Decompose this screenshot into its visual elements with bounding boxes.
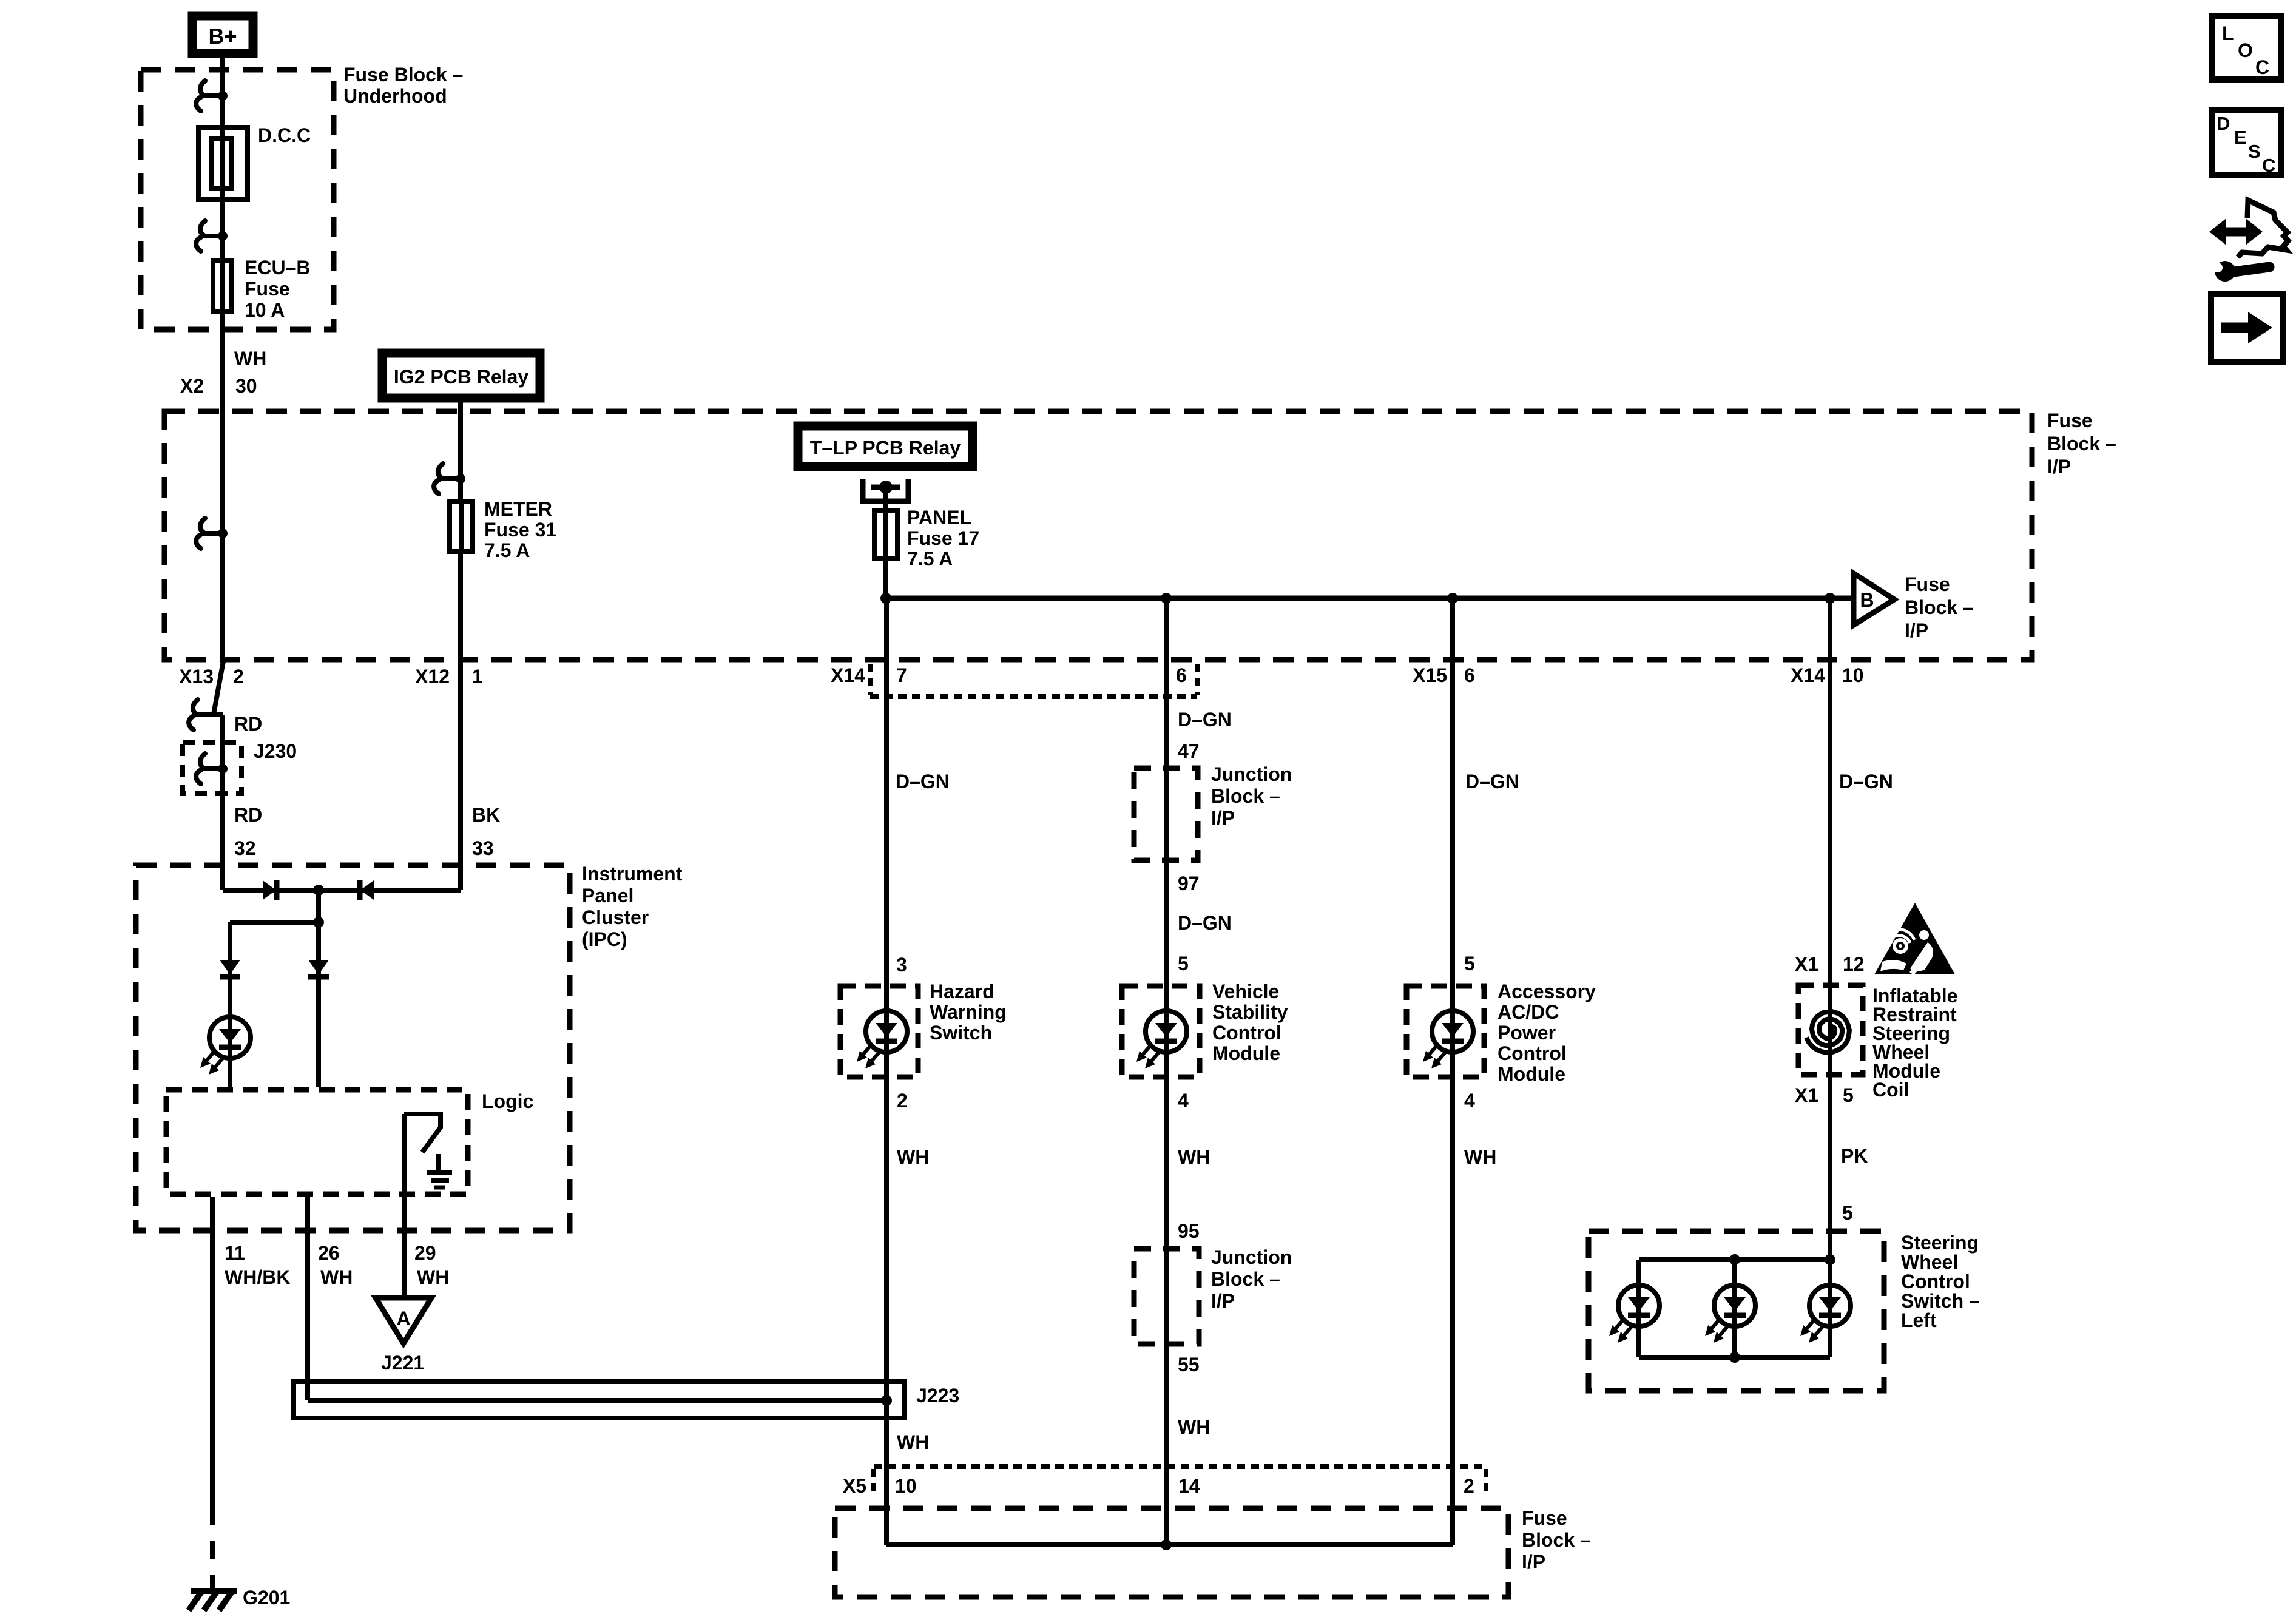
svg-text:X5: X5 [843,1475,866,1497]
svg-text:PK: PK [1841,1145,1868,1167]
Junction Block - I/P dashed box (lower) [1134,1249,1199,1344]
LED accessory AC/DC module [1423,1011,1473,1068]
svg-text:METER: METER [484,498,552,520]
wire bottom rail in switch [1639,1355,1830,1360]
next-page arrow icon box [2211,294,2283,362]
svg-text:X14: X14 [1791,664,1825,686]
svg-text:G201: G201 [243,1587,290,1609]
wire B+ down to X13 [220,58,225,663]
svg-text:X1: X1 [1795,953,1818,975]
svg-text:Wheel: Wheel [1901,1251,1958,1273]
svg-text:ECU–B: ECU–B [245,257,310,279]
svg-text:Fuse: Fuse [245,278,290,300]
svg-text:2: 2 [233,666,244,687]
svg-text:Coil: Coil [1872,1079,1909,1101]
Steering Wheel Control Switch - Left dashed box [1589,1231,1884,1391]
svg-text:47: 47 [1178,740,1200,762]
node [1729,1254,1740,1265]
svg-text:Module: Module [1497,1063,1565,1085]
bus wire from PANEL fuse across to fuse block I/P output B [886,596,1851,601]
Fuse Block - I/P dashed box (bottom) [835,1508,1508,1597]
LED switch illumination 1 [1609,1285,1660,1343]
svg-text:4: 4 [1178,1090,1189,1112]
LED VSC module [1136,1011,1187,1068]
svg-text:2: 2 [1464,1475,1474,1497]
svg-text:5: 5 [1842,1202,1853,1224]
svg-text:Fuse 31: Fuse 31 [484,519,556,541]
svg-text:I/P: I/P [2047,456,2071,478]
svg-text:Fuse Block –: Fuse Block – [343,64,463,86]
Fuse Block - I/P large dashed box [164,411,2032,660]
node [1825,593,1835,604]
coil spiral symbol [1806,1011,1849,1053]
svg-text:6: 6 [1176,664,1187,686]
svg-text:B: B [1860,589,1874,611]
wire IPC diode rail [223,888,461,893]
svg-text:J223: J223 [916,1385,959,1406]
logic ground symbol [436,1154,441,1170]
svg-text:Switch: Switch [930,1022,992,1044]
svg-text:X14: X14 [831,664,865,686]
svg-text:WH: WH [417,1266,449,1288]
LED switch illumination 3 [1800,1285,1851,1343]
svg-text:WH: WH [1178,1146,1210,1168]
wire steering coil branch [1828,598,1832,1260]
svg-text:Block –: Block – [1905,596,1974,618]
ground G201 [191,1588,237,1594]
service tool icon (arrow and wrench) [2220,228,2252,237]
fuse PANEL Fuse 17 (double rectangle) [874,511,897,559]
Junction Block - I/P dashed box (upper) [1134,768,1198,860]
wire to left LED branch [230,920,319,925]
Logic dashed box [166,1090,468,1194]
LED hazard warning switch [857,1011,907,1068]
wire left LED branch [228,922,232,1087]
wire X13 to IPC [220,715,225,890]
fuse METER Fuse 31 (double rectangle) [450,502,473,552]
ground reference triangle A (J221) [376,1298,431,1343]
svg-text:C: C [2255,56,2269,78]
svg-text:PANEL: PANEL [907,507,971,528]
svg-text:C: C [2262,155,2275,176]
svg-text:Fuse: Fuse [1905,573,1950,595]
connector hook inside J230 [196,754,228,784]
svg-text:T–LP PCB Relay: T–LP PCB Relay [810,437,961,459]
LED switch illumination 2 [1705,1285,1755,1343]
node [880,593,891,604]
wire IG2 relay to METER fuse [458,402,463,890]
connector hook on B+ feed [196,81,228,111]
Fuse Block - Underhood dashed box [141,70,334,329]
svg-text:O: O [2238,39,2253,61]
svg-text:Warning: Warning [930,1001,1007,1023]
svg-text:Instrument: Instrument [582,863,683,885]
svg-text:Control: Control [1497,1042,1567,1064]
svg-text:Panel: Panel [582,885,633,906]
svg-text:Fuse: Fuse [2047,410,2093,431]
svg-text:Logic: Logic [482,1090,533,1112]
svg-text:WH: WH [1464,1146,1496,1168]
wire junction drop [316,890,321,922]
LOC icon box [2212,16,2281,79]
svg-text:Power: Power [1497,1022,1556,1044]
svg-text:30: 30 [235,375,257,397]
splice J230 dashed box [183,743,241,794]
wire LED branch 1 [1636,1260,1641,1357]
svg-text:32: 32 [234,837,256,859]
svg-text:X12: X12 [415,666,450,687]
svg-text:D–GN: D–GN [1465,771,1519,792]
connector hook on left wire inside fuse block [196,518,228,549]
svg-text:7: 7 [896,664,907,686]
connector X14 dashed outline [868,664,873,695]
svg-text:L: L [2222,22,2234,44]
wire top rail in switch [1639,1257,1830,1262]
svg-text:4: 4 [1464,1090,1475,1112]
connector X5 dashed outline [874,1464,1486,1469]
svg-text:BK: BK [472,804,500,826]
diode on right branch [308,960,329,977]
Hazard Warning Switch dashed box [840,986,918,1077]
svg-text:S: S [2248,141,2261,162]
svg-text:95: 95 [1178,1220,1200,1242]
svg-text:RD: RD [234,713,262,735]
B+ battery feed box [192,16,253,53]
svg-text:Left: Left [1901,1309,1937,1331]
svg-text:10: 10 [1842,664,1864,686]
svg-text:D–GN: D–GN [1178,709,1232,731]
node [1161,1539,1172,1550]
Vehicle Stability Control Module dashed box [1122,986,1200,1077]
svg-text:WH: WH [897,1146,929,1168]
svg-text:Block –: Block – [1522,1529,1591,1551]
svg-text:WH: WH [1178,1416,1210,1438]
svg-text:Control: Control [1212,1022,1281,1044]
svg-text:I/P: I/P [1905,619,1928,641]
node J223 [881,1395,892,1406]
svg-text:Accessory: Accessory [1497,981,1596,1002]
svg-text:Block –: Block – [1211,785,1280,807]
svg-text:Block –: Block – [2047,433,2116,454]
svg-text:5: 5 [1464,953,1475,974]
svg-text:I/P: I/P [1211,1290,1235,1312]
connector hook on IG2 branch [434,464,465,494]
svg-text:29: 29 [414,1242,436,1264]
svg-text:AC/DC: AC/DC [1497,1001,1559,1023]
svg-text:E: E [2234,127,2247,148]
svg-text:2: 2 [897,1090,908,1112]
node [313,917,324,928]
wire accessory branch [1450,598,1455,1545]
connector hook above ECU-B fuse [196,221,228,251]
svg-text:5: 5 [1843,1084,1854,1106]
svg-text:6: 6 [1464,664,1475,686]
svg-text:Steering: Steering [1901,1232,1979,1254]
svg-text:RD: RD [234,804,262,826]
svg-text:IG2 PCB Relay: IG2 PCB Relay [394,366,529,388]
svg-text:Vehicle: Vehicle [1212,981,1279,1002]
svg-text:55: 55 [1178,1354,1200,1376]
svg-text:Junction: Junction [1211,763,1292,785]
svg-text:I/P: I/P [1211,807,1235,829]
svg-text:Junction: Junction [1211,1246,1292,1268]
svg-text:10 A: 10 A [245,299,285,321]
svg-text:(IPC): (IPC) [582,928,627,950]
svg-text:WH/BK: WH/BK [225,1266,290,1288]
warning triangle (inflatable restraint) [1874,903,1955,974]
diode D1 (right pointing) [263,880,276,900]
Instrument Panel Cluster (IPC) dashed box [136,865,570,1230]
T-LP PCB Relay box [798,426,973,467]
svg-text:Cluster: Cluster [582,906,649,928]
svg-text:5: 5 [1178,953,1189,974]
wire right branch [316,922,321,1087]
svg-text:3: 3 [896,954,907,976]
svg-text:Stability: Stability [1212,1001,1288,1023]
svg-text:Module: Module [1212,1042,1280,1064]
wire LED branch 3 [1828,1260,1832,1357]
svg-text:7.5 A: 7.5 A [484,539,530,561]
svg-text:Hazard: Hazard [930,981,994,1002]
svg-text:WH: WH [234,348,266,370]
svg-text:Underhood: Underhood [343,85,447,107]
svg-text:10: 10 [895,1475,917,1497]
svg-text:I/P: I/P [1522,1551,1545,1573]
wire hazard branch [884,598,889,1545]
svg-text:Fuse 17: Fuse 17 [907,527,979,549]
X13 connector blade and hook [214,661,223,714]
wire relay to PANEL fuse to bus [883,487,888,598]
svg-text:D.C.C: D.C.C [258,124,311,146]
DESC icon box [2212,110,2281,175]
wire LED branch 2 [1732,1260,1737,1357]
svg-text:Fuse: Fuse [1522,1507,1567,1529]
Inflatable Restraint Steering Wheel Module Coil dashed box [1798,985,1863,1075]
svg-text:WH: WH [320,1266,353,1288]
node [1729,1352,1740,1363]
svg-text:X1: X1 [1795,1084,1818,1106]
splice bus J223 [294,1382,905,1418]
svg-text:Block –: Block – [1211,1268,1280,1290]
svg-text:X15: X15 [1413,664,1447,686]
wire pin 26 WH [305,1197,310,1400]
fuse ECU-B 10A [213,261,232,311]
wire pin 11 WH/BK [210,1197,215,1507]
svg-text:WH: WH [897,1431,929,1453]
logic switch to ground [402,1114,407,1298]
svg-text:B+: B+ [208,24,237,49]
svg-text:33: 33 [472,837,494,859]
svg-text:J221: J221 [381,1352,424,1374]
wire VSC branch [1164,598,1169,1545]
output arrow B to Fuse Block - I/P [1854,573,1894,625]
node [1825,1254,1835,1265]
svg-text:Switch –: Switch – [1901,1290,1980,1312]
svg-text:7.5 A: 7.5 A [907,548,953,570]
svg-text:D: D [2217,113,2230,134]
wire bottom bus [886,1542,1453,1547]
node [1447,593,1458,604]
svg-text:J230: J230 [254,740,297,762]
svg-text:14: 14 [1178,1475,1200,1497]
svg-text:97: 97 [1178,873,1200,894]
fuse D.C.C (double rectangle) [198,127,248,200]
node on diode rail [313,885,324,896]
Accessory AC/DC Power Control Module dashed box [1406,986,1484,1077]
svg-text:X2: X2 [180,375,204,397]
svg-text:D–GN: D–GN [896,771,950,792]
relay contact bracket [860,479,866,504]
svg-text:Control: Control [1901,1271,1970,1292]
IG2 PCB Relay box [382,353,540,398]
diode on left branch [220,960,240,977]
svg-text:1: 1 [472,666,483,687]
diode D2 (left pointing) [360,880,374,900]
svg-text:D–GN: D–GN [1839,771,1893,792]
svg-text:A: A [396,1308,410,1329]
svg-text:11: 11 [225,1242,245,1264]
LED telltale in IPC [200,1017,251,1075]
node [1161,593,1172,604]
svg-text:X13: X13 [179,666,214,687]
svg-text:12: 12 [1843,953,1865,975]
svg-text:D–GN: D–GN [1178,912,1232,934]
svg-text:26: 26 [318,1242,340,1264]
